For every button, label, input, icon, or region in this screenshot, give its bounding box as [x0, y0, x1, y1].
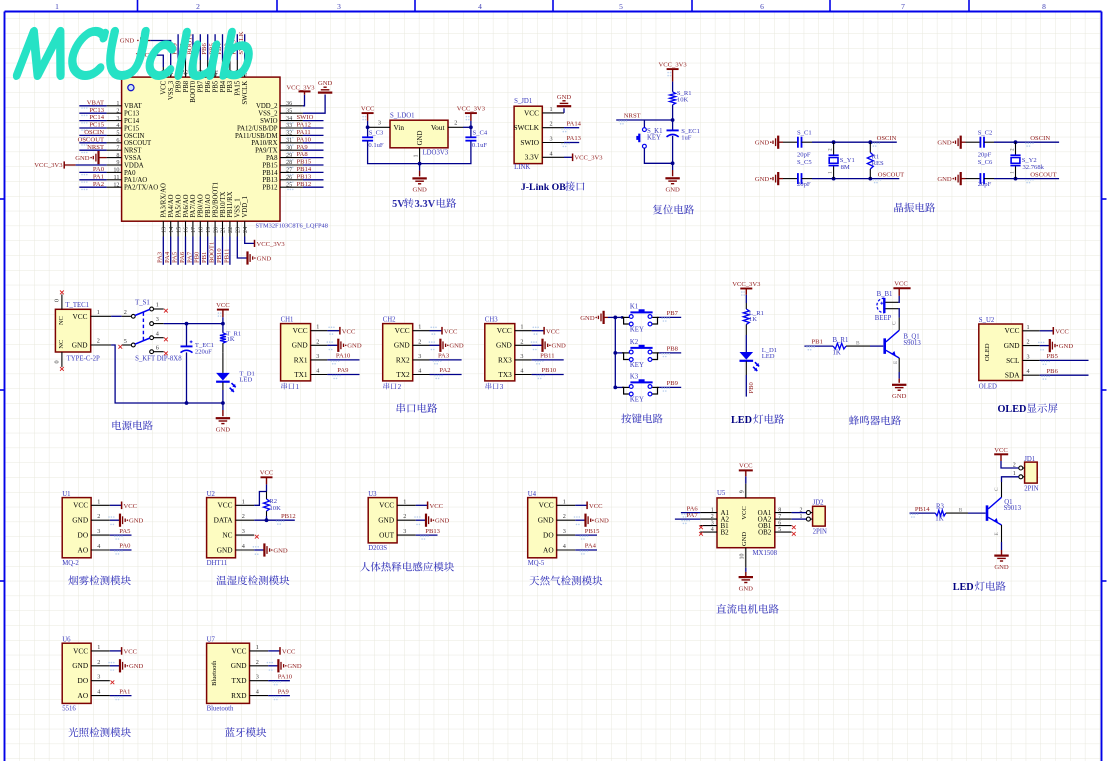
svg-text:S9013: S9013 — [903, 340, 921, 347]
svg-text:PB10: PB10 — [542, 367, 557, 374]
svg-text:U3: U3 — [368, 491, 377, 498]
gnd left S_C5 — [777, 172, 779, 185]
caption keys — [621, 414, 631, 424]
svg-text:21: 21 — [220, 227, 227, 233]
svg-text:VSSA: VSSA — [124, 155, 141, 162]
oled pb5 — [1040, 359, 1089, 361]
svg-text:1: 1 — [413, 154, 420, 157]
svg-text:20: 20 — [212, 227, 219, 233]
svg-text:GND: GND — [216, 426, 231, 433]
mcu pin 36 VDD_2 — [280, 105, 303, 107]
U7 net PA9 — [268, 695, 290, 697]
U1 vcc — [110, 504, 121, 506]
svg-text:J-Link OB: J-Link OB — [521, 182, 566, 193]
CH3 tx net PB10 — [532, 374, 564, 376]
svg-text:5: 5 — [619, 2, 623, 11]
svg-text:17: 17 — [190, 227, 197, 233]
mcu VDD_2 to VCC_3V3 power — [303, 95, 305, 106]
CH2 vcc — [430, 330, 442, 332]
svg-text:PB2/BOOT1: PB2/BOOT1 — [212, 182, 219, 218]
svg-text:2: 2 — [256, 659, 259, 666]
svg-text:PB1: PB1 — [201, 252, 208, 263]
svg-text:PB14: PB14 — [915, 506, 930, 513]
svg-text:1: 1 — [242, 498, 245, 505]
module U6 5516 box — [62, 643, 91, 703]
svg-text:S_C1: S_C1 — [797, 129, 812, 136]
svg-text:1: 1 — [1027, 324, 1030, 331]
U4 gnd — [575, 519, 585, 521]
svg-text:2: 2 — [800, 507, 803, 513]
mcu pin 35 VSS_2 — [280, 112, 303, 114]
svg-text:VCC: VCC — [546, 328, 560, 335]
svg-text:24: 24 — [242, 227, 249, 233]
svg-text:23: 23 — [235, 227, 242, 233]
mcu bottom pin 20 PB2/BOOT1 — [214, 221, 216, 236]
svg-text:PB4: PB4 — [220, 80, 227, 92]
svg-text:LED: LED — [239, 377, 252, 384]
CH1 rx net PA10 — [327, 359, 359, 361]
svg-text:33: 33 — [286, 122, 292, 129]
svg-text:PB12: PB12 — [281, 513, 296, 520]
svg-text:S_C4: S_C4 — [473, 130, 488, 137]
mcu pin 34 SWIO — [280, 120, 303, 122]
svg-text:18: 18 — [198, 227, 205, 233]
CH2 tx net PA2 — [430, 374, 462, 376]
serial CH3 box — [485, 324, 515, 381]
svg-text:B_R1: B_R1 — [833, 337, 849, 344]
svg-text:PB7: PB7 — [198, 80, 205, 92]
svg-text:2: 2 — [242, 513, 245, 520]
U1 net PA0 — [110, 549, 132, 551]
oled S_U2 box — [979, 324, 1023, 381]
U2 nc — [255, 535, 259, 539]
svg-text:GND: GND — [552, 343, 567, 350]
wire OSCIN row2 — [984, 141, 994, 143]
svg-text:VCC: VCC — [342, 328, 356, 335]
svg-text:T_S1: T_S1 — [135, 300, 150, 307]
mcu top pin 37 SWCLK — [244, 60, 246, 77]
svg-text:OSCOUT: OSCOUT — [878, 171, 904, 178]
keys block gnd — [602, 311, 604, 324]
svg-text:PA9: PA9 — [337, 367, 349, 374]
svg-text:PA13: PA13 — [567, 135, 582, 142]
svg-text:0.1uF: 0.1uF — [368, 142, 384, 149]
svg-text:35: 35 — [286, 107, 292, 114]
svg-text:VCC_3V3: VCC_3V3 — [34, 162, 63, 169]
svg-text:VCC: VCC — [539, 501, 554, 510]
svg-text:S_C5: S_C5 — [797, 159, 812, 166]
resistor T_R1 1K — [222, 324, 224, 333]
mcu top pin 43 PB7 — [199, 60, 201, 77]
svg-text:3: 3 — [550, 136, 553, 143]
svg-text:AO: AO — [78, 545, 89, 554]
svg-text:VCC: VCC — [72, 312, 87, 321]
svg-text:3: 3 — [520, 353, 523, 360]
svg-text:OB2: OB2 — [758, 529, 772, 537]
svg-text:PB0/AO: PB0/AO — [198, 194, 205, 218]
led2 wire vcc to JD1 pin2 — [1001, 461, 1019, 468]
jlink pin1 to GND above — [563, 108, 565, 113]
svg-text:GND: GND — [292, 341, 308, 350]
svg-text:5: 5 — [124, 338, 127, 345]
svg-text:K3: K3 — [630, 374, 639, 381]
svg-text:29: 29 — [286, 152, 292, 159]
mcu top pin 39 PB3 — [229, 60, 231, 77]
svg-text:VCC: VCC — [73, 646, 88, 655]
U4 net PA4 — [575, 549, 597, 551]
svg-text:SDA: SDA — [1005, 371, 1020, 380]
svg-text:VCC: VCC — [124, 649, 138, 656]
sheet border frame — [5, 11, 1102, 13]
svg-text:CH1: CH1 — [281, 317, 294, 324]
ldo pin 1 gnd — [419, 148, 421, 164]
svg-text:LED: LED — [953, 582, 974, 593]
svg-text:VCC: VCC — [741, 506, 748, 520]
svg-text:VCC_3V3: VCC_3V3 — [257, 241, 286, 248]
svg-text:PB0: PB0 — [748, 381, 755, 393]
svg-text:KEY: KEY — [647, 135, 661, 142]
svg-text:4: 4 — [550, 150, 553, 157]
svg-text:6: 6 — [760, 2, 764, 11]
svg-text:1: 1 — [296, 383, 300, 391]
svg-text:VCC: VCC — [73, 501, 88, 510]
svg-text:VCC_3V3: VCC_3V3 — [457, 106, 486, 113]
mcu pin 27 PB14 — [280, 171, 303, 173]
svg-text:1K: 1K — [833, 349, 841, 356]
svg-text:R2: R2 — [269, 498, 277, 505]
row ticks — [0, 198, 5, 200]
mcu pin 28 PB15 — [280, 164, 303, 166]
mcu pin 5 OSCIN — [107, 134, 122, 136]
svg-text:PB13: PB13 — [297, 173, 312, 180]
svg-text:3: 3 — [337, 2, 341, 11]
svg-text:PB8: PB8 — [667, 345, 679, 352]
svg-text:10K: 10K — [677, 97, 689, 104]
mcu pin 4 PC15 — [107, 127, 122, 129]
u5 pin10 GND bottom — [745, 548, 747, 568]
svg-text:4: 4 — [563, 543, 566, 550]
svg-text:S_Y1: S_Y1 — [840, 157, 855, 164]
svg-text:OSCIN: OSCIN — [84, 129, 104, 136]
power gnd bottom — [221, 401, 225, 405]
svg-text:KEY: KEY — [630, 327, 644, 334]
ldo pin 2 — [448, 126, 463, 128]
svg-text:VCC: VCC — [217, 501, 232, 510]
caption power — [112, 420, 121, 429]
svg-text:5: 5 — [778, 527, 781, 533]
svg-text:2PIN: 2PIN — [813, 528, 827, 535]
svg-text:32.768k: 32.768k — [1023, 164, 1045, 171]
svg-text:14: 14 — [168, 227, 175, 233]
svg-text:GND: GND — [347, 343, 362, 350]
svg-text:VSS_3: VSS_3 — [168, 80, 175, 100]
svg-text:VDDA: VDDA — [124, 162, 144, 169]
svg-text:7: 7 — [778, 514, 781, 520]
svg-text:4: 4 — [1027, 368, 1030, 375]
svg-text:GND: GND — [755, 176, 770, 183]
svg-text:VCC: VCC — [231, 646, 246, 655]
svg-text:6: 6 — [116, 137, 119, 144]
svg-text:PB7: PB7 — [667, 310, 679, 317]
svg-text:C: C — [891, 321, 897, 325]
mcu top pin 40 PB4 — [222, 60, 224, 77]
wire switch pin3 to VCC node — [164, 323, 223, 325]
svg-text:GND: GND — [412, 187, 427, 194]
svg-text:20pF: 20pF — [797, 181, 811, 188]
svg-text:TX2: TX2 — [396, 370, 410, 379]
svg-text:OSCIN: OSCIN — [1030, 135, 1050, 142]
mcu bottom pin 14 PA4/AO — [170, 221, 172, 236]
svg-text:AO: AO — [543, 545, 554, 554]
svg-text:1: 1 — [316, 324, 319, 331]
gnd left S_C2 — [960, 136, 962, 149]
svg-text:1: 1 — [550, 106, 553, 113]
svg-text:8: 8 — [116, 152, 119, 159]
svg-text:3: 3 — [403, 528, 406, 535]
mcu pin 9 VDDA — [107, 164, 122, 166]
svg-text:GND: GND — [755, 140, 770, 147]
svg-text:GND: GND — [665, 187, 680, 194]
svg-text:26: 26 — [286, 174, 292, 181]
gnd left S_C6 — [960, 172, 962, 185]
svg-text:GND: GND — [72, 661, 88, 670]
jlink pin4 VCC_3V3 — [564, 156, 572, 158]
u5 nc pins B1 B2 — [699, 525, 703, 529]
mcu pin 33 PA12/USB/DP — [280, 127, 303, 129]
svg-text:1: 1 — [418, 324, 421, 331]
svg-text:PA1: PA1 — [93, 173, 104, 180]
svg-text:9: 9 — [740, 490, 746, 493]
U3 net PB13 — [416, 534, 438, 536]
module U1 MQ-2 box — [62, 498, 91, 558]
svg-text:NRST: NRST — [87, 144, 104, 151]
svg-text:PA10/RX: PA10/RX — [251, 140, 277, 147]
tec1 pin1 VCC — [91, 315, 111, 317]
serial CH1 box — [281, 324, 311, 381]
svg-text:2: 2 — [454, 119, 457, 126]
oled gnd — [1040, 345, 1050, 347]
cap S_C3 — [367, 127, 369, 137]
module U7 Bluetooth box — [207, 643, 250, 703]
svg-text:1: 1 — [97, 309, 100, 316]
svg-text:TX3: TX3 — [498, 370, 512, 379]
CH2 rx net PA3 — [430, 359, 462, 361]
svg-text:NC: NC — [58, 340, 65, 349]
svg-text:S_U2: S_U2 — [979, 317, 995, 324]
svg-text:GND: GND — [595, 518, 610, 525]
mcu bottom pin 19 PB1/AO — [207, 221, 209, 236]
svg-text:VCC: VCC — [497, 326, 512, 335]
caption crystal — [894, 203, 903, 213]
svg-text:RX2: RX2 — [396, 355, 410, 364]
svg-text:1: 1 — [563, 498, 566, 505]
svg-text:VCC: VCC — [444, 328, 458, 335]
U6 vcc — [110, 650, 121, 652]
svg-text:PB11/RX: PB11/RX — [227, 191, 234, 217]
svg-text:SWIO: SWIO — [520, 138, 539, 147]
svg-text:U7: U7 — [207, 636, 216, 643]
svg-text:GND: GND — [231, 661, 247, 670]
svg-text:GND: GND — [557, 94, 572, 101]
svg-text:34: 34 — [286, 115, 292, 122]
tec1 pin2 GND — [91, 344, 111, 346]
svg-text:4: 4 — [97, 543, 100, 550]
svg-text:PA10: PA10 — [336, 353, 351, 360]
svg-text:PB6: PB6 — [1047, 368, 1059, 375]
svg-text:GND: GND — [287, 663, 302, 670]
mcu top pin 38 PA15 — [236, 60, 238, 77]
svg-text:RX3: RX3 — [498, 355, 512, 364]
resistor R2 10K pullup — [266, 492, 268, 500]
mcu bottom pin 17 PA7/AO — [192, 221, 194, 236]
svg-text:PB6: PB6 — [201, 43, 208, 55]
u5 wires to JD2 — [792, 512, 807, 514]
svg-text:2: 2 — [711, 514, 714, 520]
svg-text:1: 1 — [800, 514, 803, 520]
svg-text:PB5: PB5 — [212, 80, 219, 92]
svg-text:GND: GND — [937, 140, 952, 147]
CH1 gnd — [327, 344, 337, 346]
svg-text:GND: GND — [739, 585, 754, 592]
svg-text:VCC: VCC — [216, 302, 230, 309]
svg-text:S_LDO1: S_LDO1 — [390, 113, 415, 120]
tec1 top pin 0 — [61, 294, 63, 309]
mcu bottom pin 24 VDD_1 — [244, 221, 246, 236]
svg-text:GND: GND — [72, 341, 88, 350]
svg-text:5: 5 — [116, 130, 119, 137]
svg-text:VCC: VCC — [739, 463, 753, 470]
mcu pin 31 PA10/RX — [280, 142, 303, 144]
svg-text:TX1: TX1 — [294, 370, 308, 379]
svg-text:PB14: PB14 — [262, 170, 278, 177]
resistor L_R1 1K — [743, 309, 749, 324]
svg-text:Vout: Vout — [431, 123, 445, 132]
transistor Q1 S9013 — [986, 505, 989, 520]
svg-text:1: 1 — [55, 2, 59, 11]
svg-text:OSCOUT: OSCOUT — [1030, 171, 1056, 178]
svg-text:13: 13 — [161, 227, 168, 233]
svg-text:OLED: OLED — [979, 384, 997, 391]
svg-text:5V: 5V — [392, 199, 405, 210]
svg-text:8M: 8M — [841, 164, 850, 171]
CH3 rx net PB11 — [532, 359, 564, 361]
svg-text:STM32F103C8T6_LQFP48: STM32F103C8T6_LQFP48 — [256, 223, 328, 230]
svg-text:VBAT: VBAT — [87, 99, 104, 106]
cap S_EC1 1uF — [672, 120, 674, 130]
mcu pin 6 OSCOUT — [107, 142, 122, 144]
mcu U_S1 STM32F103C8T6 box — [122, 77, 280, 221]
svg-text:PA3/RX/AO: PA3/RX/AO — [161, 183, 168, 218]
svg-text:SWIO: SWIO — [260, 118, 277, 125]
svg-text:VCC_3V3: VCC_3V3 — [574, 155, 603, 162]
svg-text:S_C6: S_C6 — [978, 159, 993, 166]
svg-text:3.3V: 3.3V — [525, 153, 540, 162]
svg-text:1K: 1K — [749, 316, 757, 323]
svg-text:PA6: PA6 — [179, 251, 186, 263]
svg-text:3: 3 — [418, 353, 421, 360]
mcu top pin 42 PB6 — [207, 60, 209, 77]
svg-text:7: 7 — [116, 144, 119, 151]
svg-text:6: 6 — [156, 344, 159, 351]
svg-text:1: 1 — [97, 498, 100, 505]
svg-text:GND: GND — [75, 155, 90, 162]
mcu bottom pin 16 PA6/AO — [185, 221, 187, 236]
led T_D1 — [216, 373, 230, 381]
U7 vcc — [268, 650, 279, 652]
mcu top pin 41 PB5 — [214, 60, 216, 77]
caption motor — [716, 604, 726, 613]
svg-text:PC13: PC13 — [124, 111, 140, 118]
svg-text:PA10: PA10 — [297, 136, 312, 143]
mcu pin 11 PA1/AO — [107, 179, 122, 181]
svg-text:8: 8 — [1042, 2, 1046, 11]
svg-text:LED: LED — [762, 353, 775, 360]
keys trunk — [614, 317, 616, 387]
cap S_C5 20pF — [797, 173, 799, 184]
svg-text:1: 1 — [256, 644, 259, 651]
svg-text:PA11/USB/DM: PA11/USB/DM — [235, 133, 278, 140]
svg-text:PA4: PA4 — [585, 543, 597, 550]
svg-text:16: 16 — [183, 227, 190, 233]
u5 net PA6 — [681, 512, 700, 514]
svg-text:PA3: PA3 — [438, 353, 450, 360]
svg-text:PA2/TX/AO: PA2/TX/AO — [124, 185, 158, 192]
buzzer B_B1 BEEP — [877, 298, 884, 313]
svg-text:SWIO: SWIO — [297, 114, 314, 121]
svg-text:11: 11 — [114, 174, 120, 181]
key S_K1 — [643, 120, 645, 128]
svg-text:PB11: PB11 — [223, 249, 230, 263]
mcu pin 26 PB13 — [280, 179, 303, 181]
svg-text:DHT11: DHT11 — [207, 560, 228, 567]
svg-text:K2: K2 — [630, 339, 639, 346]
mcu pin 12 PA2/TX/AO — [107, 186, 122, 188]
svg-text:2: 2 — [316, 338, 319, 345]
svg-text:2: 2 — [97, 338, 100, 345]
U3 vcc — [416, 504, 427, 506]
svg-text:9: 9 — [116, 159, 119, 166]
svg-text:28: 28 — [286, 159, 292, 166]
svg-text:U1: U1 — [62, 491, 70, 498]
svg-text:1: 1 — [711, 507, 714, 513]
svg-text:S_Y2: S_Y2 — [1022, 157, 1037, 164]
module U2 DHT11 box — [207, 498, 236, 558]
gnd bottom — [418, 162, 422, 166]
CH1 tx net PA9 — [327, 374, 359, 376]
svg-text:PA15: PA15 — [235, 80, 242, 95]
svg-text:2: 2 — [398, 383, 402, 391]
svg-text:3: 3 — [1027, 353, 1030, 360]
svg-text:NC: NC — [58, 316, 65, 325]
mcu pin 7 NRST — [107, 149, 122, 151]
svg-text:OUT: OUT — [379, 531, 395, 540]
svg-text:PA12/USB/DP: PA12/USB/DP — [237, 125, 278, 132]
svg-text:36: 36 — [286, 100, 292, 107]
svg-text:U4: U4 — [528, 491, 537, 498]
svg-text:3: 3 — [711, 520, 714, 526]
svg-text:20pF: 20pF — [978, 181, 992, 188]
svg-text:7: 7 — [901, 2, 905, 11]
svg-text:LED: LED — [731, 415, 752, 426]
svg-text:BEEP: BEEP — [875, 315, 892, 322]
svg-text:PA9: PA9 — [297, 144, 309, 151]
svg-text:2PIN: 2PIN — [1024, 485, 1038, 492]
U7 gnd — [268, 665, 278, 667]
svg-text:NC: NC — [222, 531, 232, 540]
reset gnd — [672, 163, 674, 170]
svg-text:PA1: PA1 — [119, 688, 130, 695]
svg-text:TYPE-C-2P: TYPE-C-2P — [67, 355, 100, 362]
